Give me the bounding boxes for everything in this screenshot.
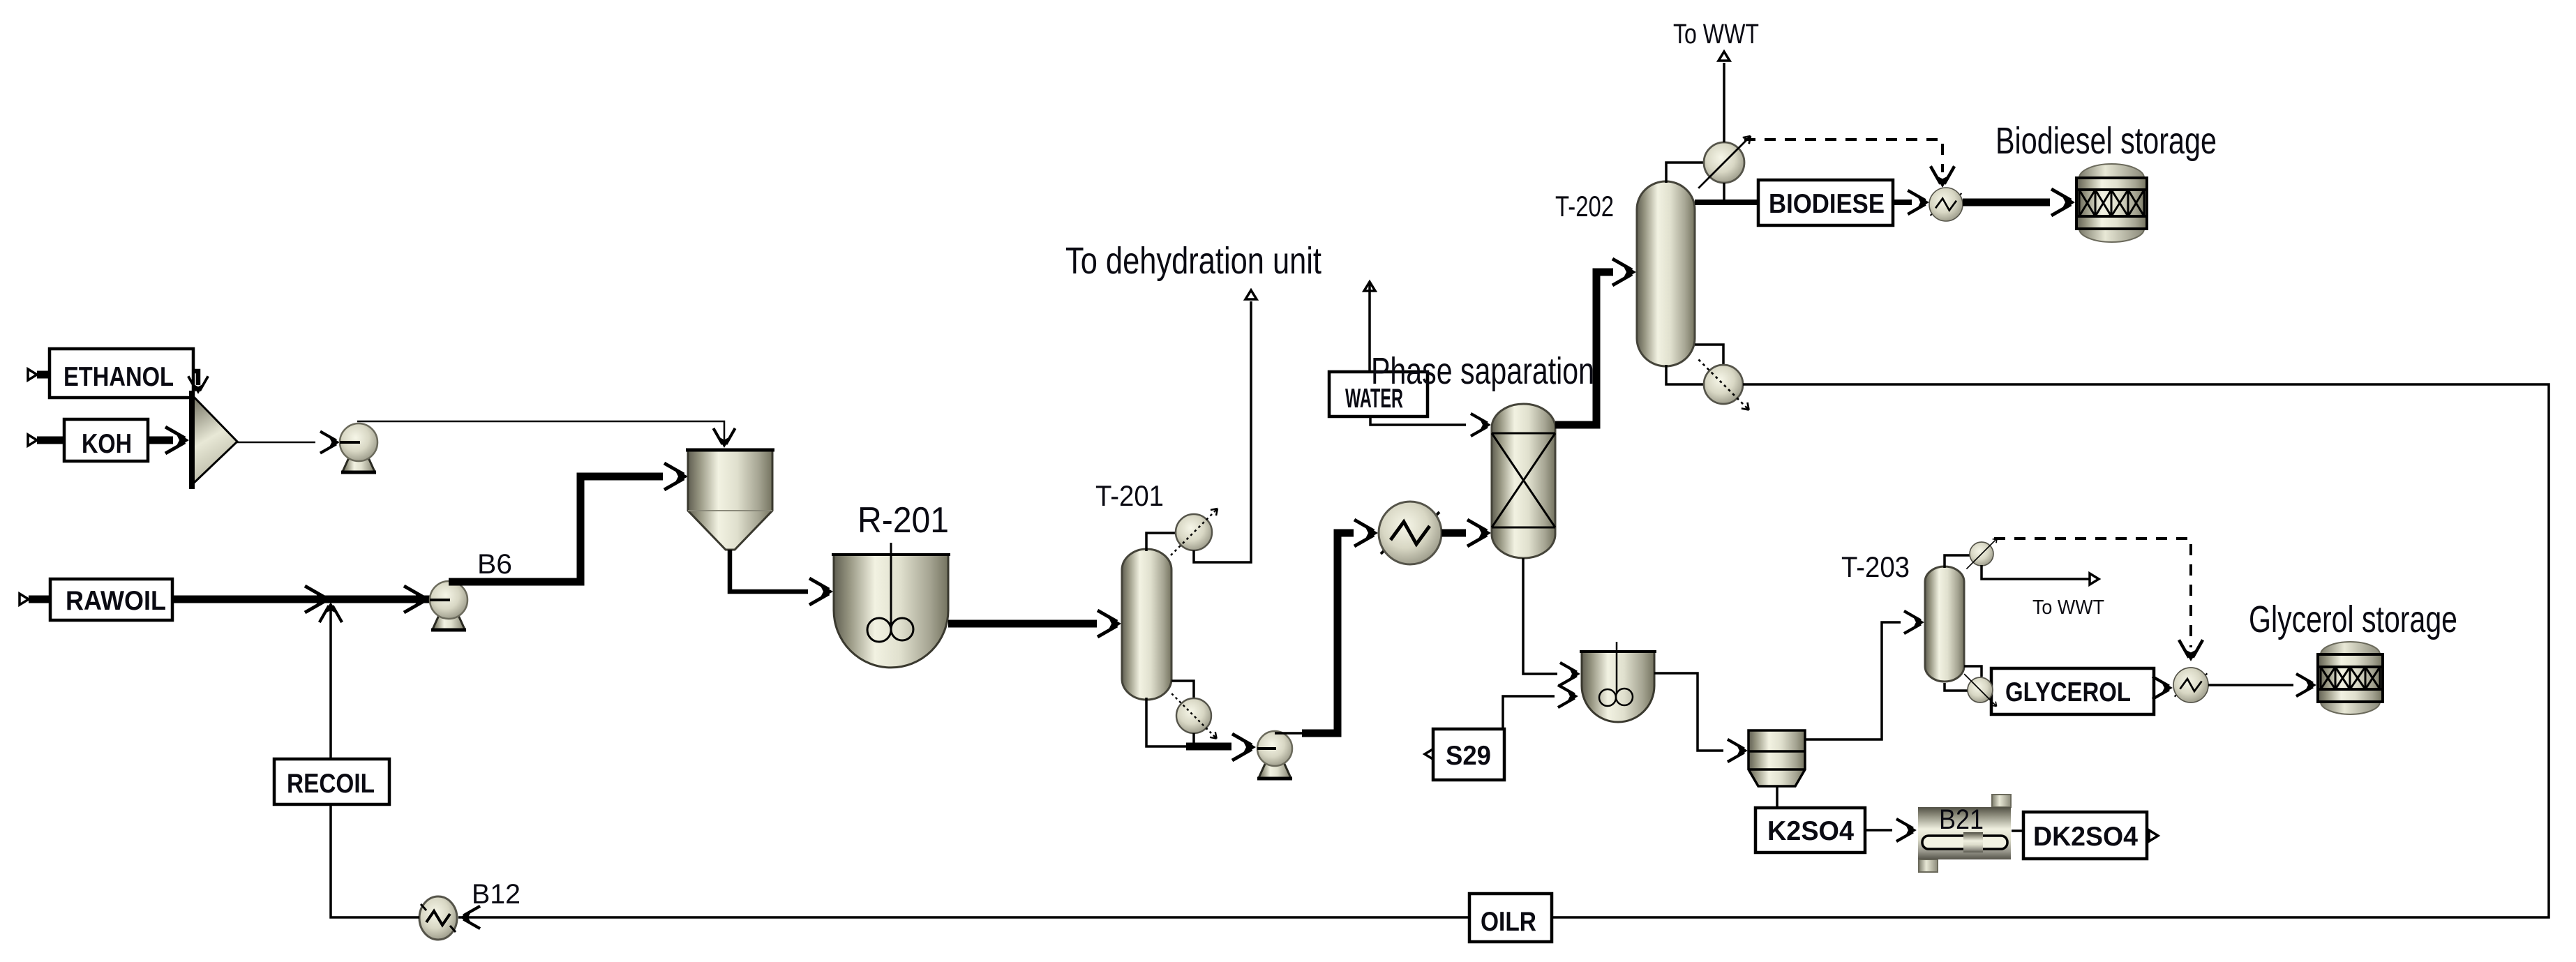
wire RECOIL return [331,608,419,917]
stream box S29 [1433,729,1504,780]
reactor R-201 vessel [832,543,950,668]
svg-text:Glycerol storage: Glycerol storage [2249,599,2457,640]
stream box DK2SO4 [2023,812,2147,859]
wire settler to reactor [730,550,808,592]
glycerol cooler B19 [2173,668,2208,702]
wire pump B10 to heater [1302,533,1354,733]
wire pump B10 outlet thin [1275,732,1304,735]
wire filter bottoms to K2SO4 [1776,786,1779,808]
condenser T-201 [1171,509,1218,555]
wire heater to phase separator [1441,529,1466,537]
wire T-202 top to condenser [1666,163,1705,183]
stream box ETHANOL [50,349,193,398]
stream box KOH [64,419,148,461]
wire ETHANOL feed [37,371,50,379]
wire T-203 bottom stub [1945,683,1969,691]
svg-text:RAWOIL: RAWOIL [66,586,166,616]
arrow into reactor R-201 [809,578,833,605]
arrow RECOIL joins junction [320,602,342,622]
svg-text:K2SO4: K2SO4 [1767,816,1854,846]
arrow into heater [1354,520,1378,546]
phase separator internals [1492,433,1555,527]
svg-text:B21: B21 [1939,804,1984,835]
arrow into T-203 [1904,611,1924,633]
arrow into mixer top [188,376,209,394]
svg-text:KOH: KOH [82,429,132,459]
arrow RAWOIL mid [305,586,329,612]
WATER source terminal [1364,282,1375,291]
svg-text:T-203: T-203 [1841,550,1910,583]
wire ETHANOL to mixer [193,371,198,385]
svg-text:T-201: T-201 [1095,479,1164,512]
wire T-201 top to condenser [1146,533,1177,551]
wire T-203 tops to WWT [1982,565,2092,579]
arrow into T-202 [1612,259,1636,285]
wire T-201 side to reboiler [1171,681,1194,698]
wire OILR right segment [1552,384,2549,917]
column T-201 [1122,549,1171,700]
wire B6 to settler [449,476,663,582]
dryer B21 [1918,795,2011,872]
svg-text:BIODIESE: BIODIESE [1769,189,1885,219]
settler/decanter funnel [686,450,774,550]
wire cooler to glycerol storage [2208,684,2293,686]
svg-text:T-202: T-202 [1555,190,1614,223]
condenser T-203 [1966,539,1997,569]
arrow into phase separator [1467,520,1491,546]
arrow B6 into settler [664,463,688,490]
wire phase separator bottoms [1523,558,1557,674]
reboiler T-203 [1964,674,1996,706]
svg-text:To WWT: To WWT [1673,19,1759,50]
wire KOH to mixer [148,437,173,444]
condenser T-202 [1698,136,1751,188]
arrow into dryer B21 [1896,819,1917,841]
wire condenser down to product [1723,183,1725,204]
phase separator B13 [1492,404,1555,558]
wire reboiler T-201 drop [1192,733,1195,746]
wire KOH feed [37,437,64,444]
svg-text:Biodiesel storage: Biodiesel storage [1995,120,2217,162]
column T-203 [1925,566,1964,682]
wire mixer to KOH pump [237,442,315,444]
svg-text:S29: S29 [1446,741,1491,771]
arrow into glycerol storage [2296,674,2316,696]
column T-202 [1637,181,1695,366]
svg-text:B12: B12 [472,879,521,910]
wire B21 to DK2SO4 [2012,829,2024,832]
svg-text:ETHANOL: ETHANOL [63,362,174,392]
dashed utility to product cooler [1744,140,1942,172]
wire phase separator to T-202 [1555,272,1613,425]
arrow S29 into mixer tank [1558,685,1578,707]
arrow OILR into B12 [460,906,480,929]
wire OILR left segment [458,916,1469,919]
mixer tank B14 [1580,642,1656,722]
wire RAWOIL to pump B6 [172,596,430,603]
arrow into filter [1728,739,1748,762]
arrow into biodiesel storage [2051,189,2075,216]
wire filter tops to T-203 [1805,622,1901,739]
glycerol storage tank [2318,642,2383,714]
stream box RAWOIL [50,579,172,620]
pump B6 [430,581,467,630]
wire WATER to phase separator [1370,416,1466,425]
svg-text:GLYCEROL: GLYCEROL [2005,677,2131,707]
arrow dashed into product cooler [1931,166,1954,188]
wire T-202 side to reboiler [1695,345,1723,364]
svg-text:OILR: OILR [1481,907,1536,937]
arrow into pump B6 [404,586,428,612]
wire condenser to WWT [1723,63,1725,142]
arrow dashed into glycerol cooler [2179,640,2203,661]
svg-text:DK2SO4: DK2SO4 [2033,822,2138,852]
filter B15 [1748,730,1805,786]
cooler B12 [419,896,457,940]
biodiesel storage tank [2076,164,2147,242]
svg-text:To WWT: To WWT [2032,596,2104,619]
wire RAWOIL feed [29,596,50,603]
svg-text:Phase saparation: Phase saparation [1371,350,1594,392]
stream box RECOIL [274,759,389,804]
heater B11 [1379,502,1441,564]
wire T-201 bottom stub [1146,698,1195,746]
wire K2SO4 to dryer B21 [1865,829,1892,832]
ETHANOL feed terminal [28,369,37,380]
arrow GLYCEROL into cooler [2152,677,2173,699]
dashed utility to glycerol cooler [1994,539,2191,647]
stream box BIODIESE [1758,180,1893,225]
reboiler T-202 [1698,359,1748,409]
arrow into product cooler [1908,190,1929,214]
wire cooler to biodiesel storage [1963,199,2050,206]
wire WATER source [1368,282,1371,373]
wire T-202 bottom stub [1666,365,1703,384]
DK2SO4 product terminal [2149,830,2158,841]
product cooler B16 [1929,188,1963,221]
wire T-201 bottoms [1186,743,1231,751]
arrow WATER into phase separator [1471,414,1491,436]
RAWOIL feed terminal [20,594,29,605]
arrow into T-201 [1098,610,1121,637]
terminal to dehydration unit [1245,290,1257,299]
stream box WATER [1329,372,1428,416]
svg-text:RECOIL: RECOIL [287,769,375,799]
reboiler T-201 [1171,693,1216,738]
S29 feed terminal [1425,749,1434,760]
arrow into mixer tank [1560,663,1580,685]
pump B2 (KOH/ethanol) [340,423,377,472]
stream box OILR [1469,894,1552,942]
stream box K2SO4 [1755,808,1865,852]
arrow into pump B10 [1232,734,1256,760]
KOH feed terminal [28,435,37,446]
arrow KOH into mixer [165,427,189,453]
wire BIODIESE to cooler [1893,200,1912,205]
wire reactor to T-201 [948,620,1097,628]
wire condenser to dehydration unit [1194,301,1251,562]
terminal to WWT top [1718,52,1730,61]
stream box GLYCEROL [1991,668,2154,714]
wire mixer tank to filter [1654,673,1723,751]
mixer B1 triangle [192,391,237,489]
arrow into KOH pump [320,431,340,453]
svg-text:B6: B6 [477,549,512,580]
pump B10 [1257,731,1292,779]
wire pump to settler top [357,421,724,439]
terminal to WWT (T-203) [2090,573,2099,585]
arrow into settler [713,428,735,448]
svg-text:R-201: R-201 [858,500,949,541]
svg-text:To dehydration unit: To dehydration unit [1065,240,1321,282]
wire T-203 top to condenser [1945,555,1970,568]
wire T-203 side to reboiler [1964,666,1982,677]
wire S29 to mixer tank [1503,696,1555,729]
wire T-202 distillate [1695,200,1758,205]
